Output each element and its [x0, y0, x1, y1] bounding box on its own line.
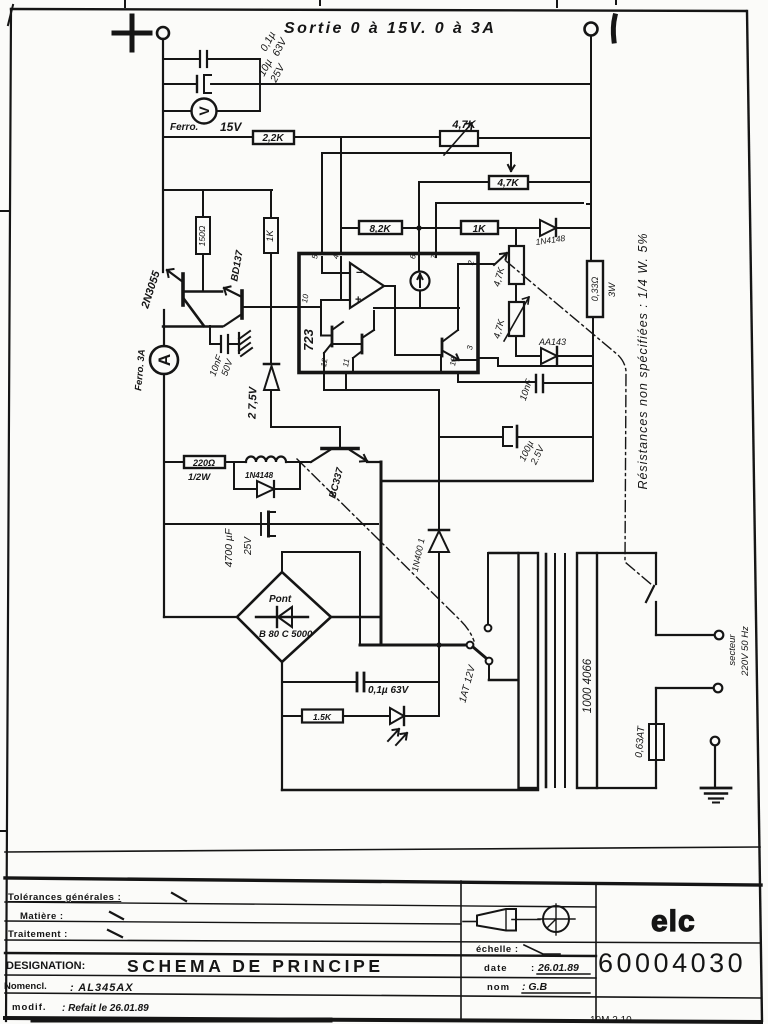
- svg-text:11: 11: [341, 358, 351, 368]
- svg-text:V: V: [196, 106, 212, 116]
- svg-text:2N3055: 2N3055: [139, 269, 163, 311]
- svg-text:: AL345AX: : AL345AX: [70, 982, 134, 994]
- svg-text:2,2K: 2,2K: [261, 133, 284, 144]
- svg-text:elc: elc: [651, 905, 696, 938]
- svg-text:Ferro. 3A: Ferro. 3A: [133, 349, 148, 392]
- svg-text:nom: nom: [487, 982, 510, 993]
- svg-text:1000 4066: 1000 4066: [582, 658, 594, 713]
- svg-text:DESIGNATION:: DESIGNATION:: [6, 960, 85, 972]
- svg-text:Résistances non spécifiées : 1: Résistances non spécifiées : 1/4 W. 5%: [636, 232, 650, 489]
- svg-text:8,2K: 8,2K: [369, 224, 391, 235]
- svg-text:−: −: [356, 267, 362, 279]
- svg-text:secteur: secteur: [727, 634, 738, 666]
- svg-text:26.01.89: 26.01.89: [537, 962, 579, 974]
- svg-text:échelle :: échelle :: [476, 944, 519, 955]
- svg-text:B 80 C 5000: B 80 C 5000: [259, 629, 313, 640]
- svg-text:1N400 1: 1N400 1: [410, 537, 427, 572]
- svg-text:10nF: 10nF: [518, 377, 536, 402]
- svg-text:1AT 12V: 1AT 12V: [457, 663, 478, 704]
- svg-text:1/2W: 1/2W: [188, 472, 211, 483]
- svg-text:Nomencl.: Nomencl.: [4, 981, 47, 992]
- svg-text:0,33Ω: 0,33Ω: [590, 277, 600, 302]
- svg-text:4700 µF: 4700 µF: [223, 528, 235, 567]
- svg-text:1N4148: 1N4148: [245, 471, 274, 480]
- svg-text:BC337: BC337: [327, 466, 346, 499]
- svg-text:1K: 1K: [473, 224, 487, 235]
- svg-text:2 7,5V: 2 7,5V: [246, 385, 259, 420]
- svg-text:0,1µ 63V: 0,1µ 63V: [368, 685, 410, 696]
- svg-text:SCHEMA DE PRINCIPE: SCHEMA DE PRINCIPE: [127, 956, 384, 976]
- svg-text:Tolérances générales :: Tolérances générales :: [8, 892, 121, 903]
- svg-text:4,7K: 4,7K: [492, 318, 508, 340]
- svg-text:Matière :: Matière :: [20, 911, 64, 922]
- svg-text:: Refait le 26.01.89: : Refait le 26.01.89: [62, 1003, 149, 1014]
- svg-text:4,7K: 4,7K: [451, 119, 476, 131]
- svg-text:BD137: BD137: [229, 249, 245, 282]
- svg-text:0,63AT: 0,63AT: [634, 725, 648, 758]
- svg-text:4,7K: 4,7K: [496, 178, 519, 189]
- svg-text:2: 2: [466, 259, 476, 266]
- svg-text:25V: 25V: [243, 536, 254, 556]
- svg-text:Pont: Pont: [269, 594, 292, 605]
- svg-text:Ferro.: Ferro.: [170, 122, 198, 133]
- svg-text:1.5K: 1.5K: [313, 712, 332, 722]
- svg-text:Sortie 0 à 15V. 0 à 3A: Sortie 0 à 15V. 0 à 3A: [284, 20, 496, 37]
- svg-text:15V: 15V: [220, 120, 242, 134]
- svg-text:3: 3: [465, 344, 475, 350]
- svg-text:4,7K: 4,7K: [492, 266, 508, 288]
- svg-text:220V 50 Hz: 220V 50 Hz: [740, 626, 751, 677]
- svg-text:12: 12: [319, 357, 330, 368]
- svg-text:+: +: [355, 294, 361, 306]
- svg-text:10M 2 10: 10M 2 10: [590, 1015, 632, 1024]
- svg-text::: :: [531, 963, 534, 974]
- svg-text:10: 10: [300, 293, 311, 304]
- svg-text:: G.B: : G.B: [522, 981, 547, 993]
- svg-text:AA143: AA143: [538, 337, 566, 347]
- svg-text:modif.: modif.: [12, 1002, 47, 1013]
- svg-text:date: date: [484, 963, 508, 974]
- svg-text:3W: 3W: [607, 282, 618, 297]
- svg-text:220Ω: 220Ω: [192, 458, 215, 468]
- svg-text:A: A: [155, 354, 174, 366]
- svg-text:1K: 1K: [265, 230, 276, 242]
- svg-text:Traitement :: Traitement :: [8, 929, 68, 940]
- svg-text:60004030: 60004030: [598, 948, 746, 978]
- svg-text:723: 723: [301, 328, 316, 350]
- svg-text:150Ω: 150Ω: [197, 225, 207, 246]
